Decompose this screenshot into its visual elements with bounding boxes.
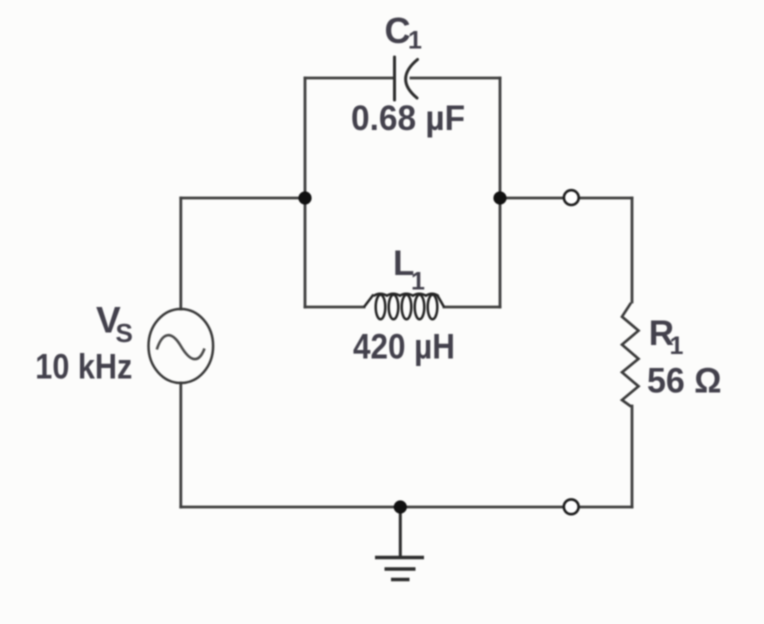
svg-text:1: 1 — [411, 268, 425, 296]
svg-text:1: 1 — [408, 27, 422, 55]
svg-text:56 Ω: 56 Ω — [647, 362, 722, 401]
svg-text:1: 1 — [670, 332, 684, 360]
svg-text:S: S — [116, 318, 133, 348]
svg-text:420 µH: 420 µH — [353, 327, 455, 366]
svg-text:0.68 µF: 0.68 µF — [351, 99, 465, 138]
svg-text:C: C — [385, 10, 411, 51]
svg-text:10 kHz: 10 kHz — [35, 348, 132, 387]
